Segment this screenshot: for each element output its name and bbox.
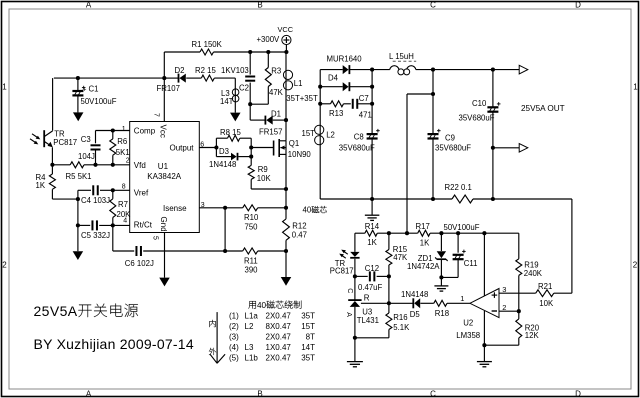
op IC U1 KA3842A box [130,122,200,233]
node R9 source junction [284,187,288,191]
svg-text:L1: L1 [294,79,303,88]
capacitor C10 [487,70,500,199]
diode D4 upper MUR1640 [320,65,372,74]
svg-text:C2: C2 [239,83,249,92]
node R4 wire junction [76,197,80,201]
capacitor C4 [93,185,98,195]
svg-text:35V680uF: 35V680uF [459,114,495,123]
wire R8-D3 left vertical [215,138,217,156]
R16 value label [393,323,410,332]
C4 label [81,196,110,205]
svg-text:L3: L3 [245,343,254,352]
C3 value label [78,152,95,161]
svg-text:C: C [430,1,436,10]
node R3 top junction [266,50,270,54]
svg-text:L2: L2 [245,322,254,331]
node C5 left junction [76,223,80,227]
resistor R21 [536,290,572,297]
svg-text:2X0.47: 2X0.47 [266,332,292,341]
resistor R3 snubber [265,52,271,104]
Q1 value label [288,150,312,159]
R5 label [66,172,92,181]
capacitor C2 snubber [245,52,255,104]
capacitor C12 [355,271,389,281]
R13 label [329,109,343,118]
L label [389,52,414,61]
ZD1 value label [407,262,440,271]
resistor R1 [164,49,286,55]
op U3 TL431 [348,300,389,361]
wire Vfd pin2 [52,164,129,166]
svg-text:14T: 14T [220,97,234,106]
svg-text:R8 15: R8 15 [220,128,241,137]
node Vcc junction [162,76,166,80]
svg-text:L1a: L1a [245,311,259,320]
L1 turns label [286,94,318,103]
svg-text:R17: R17 [416,222,430,231]
TR label secondary [335,259,346,268]
node ZD1 bottom junction [439,275,443,279]
node R6 top junction [111,128,115,132]
R21 label [538,282,552,291]
svg-text:MUR1640: MUR1640 [327,54,363,63]
svg-text:50V100uF: 50V100uF [444,223,480,232]
resistor R18 [434,300,470,306]
svg-text:(1): (1) [229,311,239,320]
D4 label [328,73,339,82]
svg-text:(2): (2) [229,322,239,331]
diode D3 1N4148 [216,153,251,161]
svg-text:A: A [345,312,352,317]
ground symbol ZD1 [434,286,448,291]
svg-text:R11: R11 [244,257,258,266]
svg-text:1K: 1K [367,238,377,247]
svg-text:L 15uH: L 15uH [389,52,414,61]
wire ZD1 ground stem [440,277,442,285]
R20 label [525,324,540,333]
svg-text:1KV103: 1KV103 [221,66,249,75]
svg-text:8: 8 [122,183,126,190]
capacitor C5 [92,220,97,230]
svg-text:10K: 10K [539,299,554,308]
svg-text:Vref: Vref [134,188,149,197]
wire pin3 to R21 [499,292,536,294]
resistor R15 [386,233,392,303]
diode D1 FR157 clamp [265,116,286,125]
node D4 lower anode junction [318,85,322,89]
node C3 bottom junction [93,163,97,167]
R7 label [118,200,128,209]
svg-text:25V5A OUT: 25V5A OUT [521,104,565,113]
D2 label [175,66,185,75]
transistor TR PC817 opto output [44,130,53,165]
label outer [209,348,216,355]
svg-text:C3: C3 [81,135,91,144]
svg-text:B: B [257,390,262,398]
capacitor C6 [113,225,225,256]
svg-text:1: 1 [460,294,464,303]
D1 value label FR157 [259,128,282,137]
svg-text:C12: C12 [365,264,379,273]
svg-text:A: A [86,390,92,398]
svg-text:471: 471 [359,110,372,119]
capacitor C11 [441,233,465,277]
C9 label [445,134,455,143]
wire opamp V- ground [483,311,485,362]
svg-text:35T: 35T [301,311,315,320]
wire L to output [416,69,519,71]
svg-text:1N4148: 1N4148 [401,290,428,299]
node opamp V+ junction [482,231,486,235]
svg-text:Gnd: Gnd [159,217,168,232]
svg-text:104J: 104J [78,152,95,161]
svg-text:15T: 15T [302,129,316,138]
svg-text:C8: C8 [354,132,364,141]
D2 value label FR107 [157,84,180,93]
svg-text:2: 2 [502,303,506,312]
svg-text:PC817: PC817 [330,266,354,275]
svg-text:R5 5K1: R5 5K1 [66,172,92,181]
capacitor C3 [91,145,101,165]
wire pin2 [499,310,519,312]
svg-text:D1: D1 [271,110,281,119]
capacitor C7 [353,99,372,109]
wire LED cathode [354,259,356,300]
L2 label [326,131,335,140]
R7 value label [117,210,132,219]
R19 label [524,261,538,270]
R17 label [416,222,430,231]
R6 label [117,137,127,146]
C1 value label [81,97,117,106]
wire R8/D3 right vertical [250,138,252,165]
R9 value label [257,174,272,183]
svg-text:2X0.47: 2X0.47 [266,354,292,363]
node R13 left junction [318,102,322,106]
svg-text:LM358: LM358 [456,331,480,340]
C9 value label [435,144,471,153]
svg-text:5K1: 5K1 [116,148,130,157]
svg-text:C7: C7 [359,94,369,103]
svg-text:TL431: TL431 [357,316,379,325]
node output junction [214,145,218,149]
R3 value label [269,88,284,97]
node sense junction [431,92,435,96]
svg-text:C1: C1 [89,85,99,94]
L2 turns label [302,129,316,138]
wire PC817 LED anode [354,233,356,252]
U1 pin numbers [122,113,205,240]
svg-text:35T: 35T [301,354,315,363]
wire ground stem [371,199,373,215]
node gate junction [249,145,253,149]
resistor R19 [516,233,522,311]
zener ZD1 1N4742A [435,233,447,277]
svg-text:C: C [346,288,353,293]
node C11 top junction [456,231,460,235]
winding table rows [229,311,315,362]
svg-text:R9: R9 [258,165,268,174]
svg-text:C: C [430,390,436,398]
resistor R11 [225,248,286,254]
node Q1 drain junction [284,118,288,122]
R4 label [36,173,47,182]
svg-text:1X0.47: 1X0.47 [266,343,292,352]
label inner [209,320,215,327]
svg-text:0.47uF: 0.47uF [358,283,383,292]
L1 label [294,79,303,88]
node C7 right junction [370,102,374,106]
R2 label [195,66,216,75]
svg-text:D3: D3 [219,147,229,156]
svg-text:R22 0.1: R22 0.1 [445,183,472,192]
ZD1 label [418,254,433,263]
R9 label [258,165,268,174]
node C9 bottom junction [431,197,435,201]
opamp pin3 label [502,285,506,294]
VCC label [278,25,294,34]
C7 label [359,94,369,103]
node C1 top junction [76,76,80,80]
svg-text:FR157: FR157 [259,128,282,137]
op-amp U2 LM358 [470,289,499,318]
resistor R20 [484,311,521,345]
C11 value label 50V100uF [444,223,480,232]
wire gate [251,147,273,149]
node output return junction [491,146,495,150]
C12 label [365,264,379,273]
svg-text:KA3842A: KA3842A [147,172,181,181]
R3 label [271,67,281,76]
svg-text:12K: 12K [525,331,540,340]
svg-text:Comp: Comp [134,127,156,136]
wire ref to D5 [389,302,414,304]
node R11 left junction [223,249,227,253]
C7 value label [359,110,372,119]
R8 label [220,128,241,137]
C12 value label [358,283,383,292]
inductor L 15uH [390,66,416,75]
R21 value label [539,299,554,308]
svg-text:14T: 14T [301,343,315,352]
output arrow plus [519,65,528,74]
svg-text:2: 2 [126,157,130,164]
svg-text:1: 1 [2,83,7,92]
node TR emitter junction [50,163,54,167]
svg-text:R12: R12 [292,221,306,230]
R14 label under ground [365,222,380,231]
svg-text:35V680uF: 35V680uF [435,144,471,153]
winding table header [248,300,301,310]
svg-text:(5): (5) [229,354,239,363]
svg-text:8X0.47: 8X0.47 [266,322,292,331]
resistor R13 [320,101,351,107]
svg-text:C10: C10 [472,99,487,108]
svg-text:C4 103J: C4 103J [81,196,110,205]
node R12 bottom junction [284,249,288,253]
ground arrow U1 pin5 [159,278,170,287]
svg-text:1K: 1K [420,239,430,248]
node ZD1 top junction [439,231,443,235]
author BY Xuzhijian 2009-07-14 [34,336,194,352]
node VCC/L1 junction [284,50,288,54]
svg-text:5: 5 [152,236,159,240]
resistor R22 [452,195,473,203]
svg-text:1N4148: 1N4148 [209,160,236,169]
C1 label [82,85,98,94]
node snubber junction [248,102,252,106]
TR LED photo arrows [339,250,348,259]
resistor R2 [201,75,235,81]
svg-text:750: 750 [245,222,259,231]
svg-text:R18: R18 [435,309,449,318]
svg-text:FR107: FR107 [157,84,180,93]
C6 label [125,259,154,268]
resistor R8 [216,135,251,141]
svg-text:10K: 10K [257,174,272,183]
diode TR PC817 LED [350,252,359,258]
svg-text:D: D [575,390,581,398]
svg-text:D: D [575,1,581,10]
node Q1 source junction [284,206,288,210]
wire top-left horizontal +Vcc node [54,77,164,79]
C8 label [354,132,364,141]
wire U1 output pin6 [199,147,216,149]
transistor Q1 10N90 MOSFET [274,139,286,208]
svg-text:U2: U2 [463,319,473,328]
resistor R6 [110,131,116,165]
svg-text:R16: R16 [393,313,407,322]
node R10 left junction [223,206,227,210]
svg-text:240K: 240K [524,269,543,278]
D5 label [410,310,421,319]
svg-text:1K: 1K [36,181,46,190]
svg-text:C11: C11 [464,259,478,268]
wire cathode vertical C8 [371,70,373,199]
C3 label [81,135,91,144]
svg-text:25V5A: 25V5A [34,303,78,319]
ground symbol opamp [477,362,492,367]
wire R12 to ground [285,251,287,277]
L dashed underline [393,60,417,62]
R12 value label [292,231,307,240]
R22 label [445,183,472,192]
node R6 bottom junction [111,163,115,167]
TL431 R label [364,294,370,303]
svg-text:R: R [364,294,370,303]
resistor R17 [418,230,430,236]
svg-text:15T: 15T [301,322,315,331]
U1 internal labels [134,125,194,232]
svg-text:Isense: Isense [163,204,187,213]
TR label [54,130,65,139]
wire rectifier output [372,69,390,71]
node D3/R9 junction [249,155,253,159]
node C12 left junction [353,274,357,278]
capacitor C9 [428,70,441,199]
node opamp gnd junction [482,343,486,347]
svg-text:R1 150K: R1 150K [192,40,223,49]
resistor R14 [365,230,377,236]
svg-text:L2: L2 [326,131,335,140]
D5 value label 1N4148 [401,290,428,299]
TR value label PC817 [53,138,77,147]
U3 value label TL431 [357,316,379,325]
wire D4 anode vertical [319,70,321,199]
transformer secondary L2 [315,125,324,145]
resistor R16 [355,303,392,338]
node L right junction [431,68,435,72]
ground symbol TL431 [347,362,363,367]
svg-text:R3: R3 [271,67,281,76]
svg-text:8T: 8T [306,332,315,341]
ground arrow below L3 [230,113,241,122]
TR photo arrows [30,134,40,145]
svg-text:L1b: L1b [245,354,259,363]
svg-text:B: B [257,1,262,10]
R11 value label [245,266,259,275]
wire left ground vertical [77,190,79,251]
D3 value label [209,160,236,169]
ground arrow left [73,251,84,260]
wire feedback rail [355,232,519,234]
svg-text:A: A [86,1,92,10]
node D4 lower cathode junction [370,85,374,89]
svg-text:35V680uF: 35V680uF [339,144,375,153]
wire snubber to D1 [250,104,265,120]
resistor R5 [70,162,84,168]
C5 label [81,231,110,240]
svg-text:VCC: VCC [278,25,294,34]
opamp pin2 label [502,303,506,312]
svg-text:1N4742A: 1N4742A [407,262,440,271]
+300V label [257,35,281,44]
svg-text:D4: D4 [328,73,339,82]
MUR1640 label [327,54,363,63]
wire voltage sense [407,94,433,233]
L3 label [220,89,234,106]
wire snubber bottom [250,103,268,105]
svg-text:47K: 47K [269,88,284,97]
node R15 top junction [387,231,391,235]
node C10 bottom junction [491,197,495,201]
svg-text:Vfd: Vfd [134,161,146,170]
capacitor C1 [72,78,85,112]
R10 value label [245,222,259,231]
svg-text:PC817: PC817 [53,138,77,147]
svg-text:2X0.47: 2X0.47 [266,311,292,320]
C10 value label [459,114,495,123]
svg-text:R7: R7 [118,200,128,209]
winding direction arrow [210,312,225,363]
wire U1 gnd pin5 [164,233,166,278]
svg-text:390: 390 [245,266,259,275]
svg-text:2: 2 [633,261,638,270]
wire output return [493,147,519,149]
svg-text:R2 15: R2 15 [195,66,216,75]
wire RtCt pin4 [78,224,130,226]
svg-text:40: 40 [257,301,267,310]
R17 value label [420,239,430,248]
node TL431 ref junction [387,301,391,305]
resistor R9 [248,165,286,189]
label 25V5A OUT [521,104,565,113]
R10 label [244,213,259,222]
svg-text:1: 1 [633,83,638,92]
wire U1 pin7 Vcc vertical [163,52,165,122]
C11 label [464,259,478,268]
node R7 top junction [111,188,115,192]
